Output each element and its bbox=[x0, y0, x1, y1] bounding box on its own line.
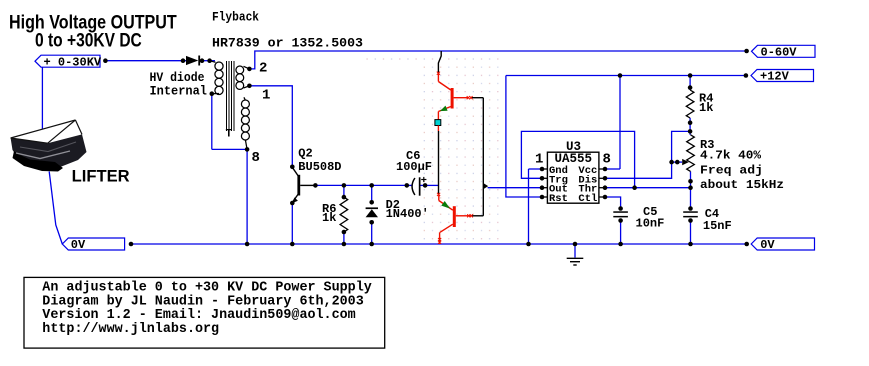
svg-text:Ctl: Ctl bbox=[578, 193, 597, 205]
svg-text:HR7839 or 1352.5003: HR7839 or 1352.5003 bbox=[212, 36, 363, 51]
svg-text:0-60V: 0-60V bbox=[761, 46, 798, 60]
svg-text:about 15kHz: about 15kHz bbox=[700, 178, 784, 192]
svg-text:HV diode: HV diode bbox=[150, 71, 205, 85]
svg-text:Internal: Internal bbox=[150, 85, 208, 99]
svg-text:http://www.jlnlabs.org: http://www.jlnlabs.org bbox=[42, 322, 219, 337]
svg-text:UA555: UA555 bbox=[554, 152, 592, 166]
svg-text:Flyback: Flyback bbox=[212, 10, 259, 24]
svg-text:0 to +30KV DC: 0 to +30KV DC bbox=[35, 30, 142, 51]
svg-text:1: 1 bbox=[535, 152, 543, 168]
svg-text:LIFTER: LIFTER bbox=[72, 167, 130, 186]
svg-text:8: 8 bbox=[252, 150, 260, 166]
svg-text:1N400': 1N400' bbox=[386, 207, 429, 221]
svg-text:Rst: Rst bbox=[549, 193, 568, 205]
svg-text:4.7k 40%: 4.7k 40% bbox=[700, 149, 762, 163]
svg-text:1k: 1k bbox=[322, 211, 336, 225]
svg-text:8: 8 bbox=[603, 152, 611, 168]
svg-text:1k: 1k bbox=[699, 101, 713, 115]
svg-text:+ 0-30KV: + 0-30KV bbox=[44, 55, 102, 69]
svg-text:0V: 0V bbox=[760, 238, 775, 252]
svg-text:An adjustable 0 to +30 KV DC P: An adjustable 0 to +30 KV DC Power Suppl… bbox=[42, 281, 371, 296]
svg-text:1: 1 bbox=[262, 88, 270, 104]
svg-text:10nF: 10nF bbox=[636, 217, 665, 231]
svg-text:2: 2 bbox=[259, 61, 267, 77]
svg-text:+12V: +12V bbox=[760, 70, 790, 84]
svg-text:15nF: 15nF bbox=[703, 219, 732, 233]
svg-text:BU508D: BU508D bbox=[298, 160, 341, 174]
svg-text:100µF: 100µF bbox=[396, 160, 432, 174]
svg-text:Freq adj: Freq adj bbox=[700, 164, 763, 178]
svg-text:0V: 0V bbox=[71, 238, 86, 252]
svg-text:Q2: Q2 bbox=[298, 147, 312, 161]
svg-text:Version 1.2 - Email: Jnaudin50: Version 1.2 - Email: Jnaudin509@aol.com bbox=[42, 308, 355, 323]
svg-text:T: T bbox=[226, 129, 233, 141]
